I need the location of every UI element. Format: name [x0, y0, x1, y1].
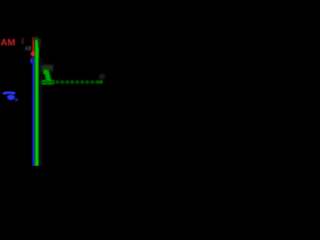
faint gray shadow strip — [39, 58, 42, 166]
faint red tick glyph — [22, 38, 24, 45]
dashed horizontal wire: ticks — [46, 80, 99, 83]
faint gray blob near end — [99, 75, 104, 79]
wire end cap — [99, 80, 103, 83]
green hook symbol: head — [43, 70, 48, 75]
green hook symbol: diagonal — [44, 71, 51, 82]
wire B core — [33, 59, 35, 167]
svg-text:AM: AM — [1, 38, 16, 49]
blue annotation glyph: top stroke — [4, 92, 13, 93]
junction dot (blue) — [30, 57, 37, 64]
dashed horizontal wire: base line — [40, 82, 103, 83]
green hook symbol: foot — [42, 80, 54, 84]
blue annotation glyph: lower blob — [7, 95, 15, 100]
dim green haze above symbol — [42, 65, 54, 72]
background — [0, 0, 110, 166]
dim gray label — [25, 47, 27, 51]
wire G halo (green vertical) — [35, 39, 40, 166]
pin line R (red vertical) — [32, 37, 34, 52]
pin end diamond (red) — [31, 51, 37, 57]
faint halo right of wire top — [38, 39, 41, 47]
blue annotation glyph: small dot — [15, 98, 18, 101]
wire B halo (blue vertical) — [32, 58, 36, 166]
wire G core — [35, 39, 38, 166]
wire G top fade — [35, 36, 38, 40]
